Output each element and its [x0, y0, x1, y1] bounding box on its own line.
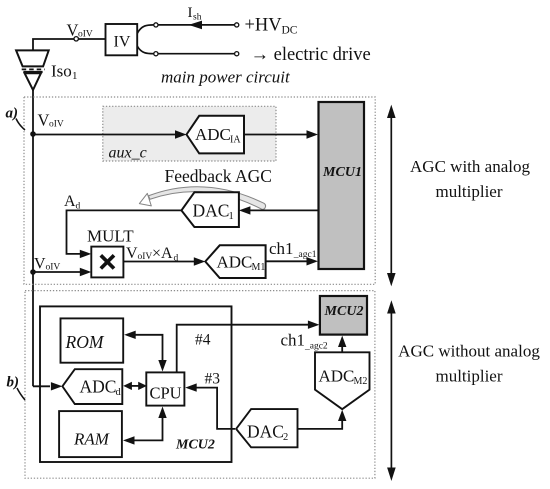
isolation amplifier Iso1 input trapezoid	[16, 50, 49, 66]
svg-text:+HV: +HV	[245, 16, 283, 36]
svg-text:ch1: ch1	[281, 331, 306, 350]
tick under a)	[16, 119, 25, 131]
multiplier MULT box	[91, 247, 123, 278]
terminal circle electric drive	[235, 52, 239, 56]
svg-text:ADC: ADC	[195, 125, 231, 144]
svg-text:multiplier: multiplier	[435, 182, 502, 201]
shaded aux_c box	[103, 106, 276, 161]
node VoIV terminal circle	[74, 37, 78, 41]
svg-text:Iso: Iso	[51, 62, 72, 81]
arrow into CPU top	[158, 360, 166, 372]
wire from Iso1 top to IV box	[33, 39, 106, 51]
svg-text:V: V	[38, 111, 50, 130]
wire Ish	[158, 24, 235, 26]
RAM box	[59, 411, 122, 457]
wire MULT to ADC_M1	[123, 261, 194, 263]
ADC_M1 converter	[205, 245, 265, 278]
svg-text:_agc1: _agc1	[293, 250, 317, 260]
svg-text:RAM: RAM	[73, 430, 110, 449]
CPU box	[146, 372, 184, 405]
svg-text:ADC: ADC	[217, 252, 253, 271]
double arrow ADC_d to CPU	[130, 385, 141, 387]
arrow #4 into MCU2	[308, 321, 320, 329]
wire DAC1 to MULT (Ad)	[67, 210, 182, 254]
ADC_IA converter	[187, 116, 245, 154]
double arrow region a	[390, 115, 392, 276]
isolation amplifier Iso1 output triangle	[25, 73, 41, 90]
wire VoIV main vertical	[32, 90, 34, 386]
feedback curved arrow body	[149, 187, 266, 210]
svg-text:M2: M2	[354, 376, 368, 387]
svg-text:→ electric drive: → electric drive	[251, 45, 371, 65]
svg-text:d: d	[116, 387, 122, 398]
svg-text:CPU: CPU	[150, 383, 182, 402]
wire VoIV into ADC_d	[33, 385, 50, 387]
DAC2 converter	[236, 409, 297, 447]
wire VoIV to ADC_IA	[33, 134, 176, 136]
svg-text:MULT: MULT	[87, 227, 134, 246]
svg-text:Feedback AGC: Feedback AGC	[165, 166, 272, 186]
svg-text:I: I	[188, 5, 193, 21]
isolation barrier solid	[23, 71, 42, 73]
svg-text:ROM: ROM	[65, 332, 105, 352]
isolation barrier dashed	[22, 68, 45, 70]
svg-text:MCU2: MCU2	[175, 438, 215, 453]
ADC_M2 converter	[315, 352, 370, 409]
terminal circle top left	[154, 23, 158, 27]
svg-text:#4: #4	[195, 332, 211, 349]
svg-text:multiplier: multiplier	[435, 367, 502, 386]
wire RAM to CPU	[134, 418, 163, 440]
svg-text:A: A	[64, 193, 76, 210]
tick under b)	[17, 388, 25, 400]
terminal circle bottom left	[154, 52, 158, 56]
svg-text:IV: IV	[114, 34, 131, 51]
arrow Ish pointing left	[189, 21, 202, 30]
svg-text:MCU2: MCU2	[324, 304, 364, 319]
arrow into DAC1	[239, 206, 251, 214]
svg-text:#3: #3	[205, 371, 221, 388]
svg-text:oIV: oIV	[46, 263, 61, 273]
IV converter box	[106, 24, 138, 55]
arrow into CPU bottom	[158, 407, 166, 419]
svg-text:d: d	[76, 202, 81, 212]
wire VoIV into MULT	[33, 271, 80, 273]
svg-text:MCU1: MCU1	[322, 165, 362, 180]
terminal circle +HVdc	[235, 23, 239, 27]
ROM box	[61, 318, 124, 362]
svg-text:×A: ×A	[152, 245, 173, 262]
svg-text:M1: M1	[252, 262, 266, 273]
double arrow region b	[390, 310, 392, 471]
svg-text:V: V	[34, 255, 46, 272]
DAC1 converter	[181, 192, 239, 227]
arrow Ad into MULT	[80, 250, 92, 258]
wire #3 DAC2 to CPU	[196, 388, 235, 429]
svg-text:oIV: oIV	[78, 30, 93, 40]
arrow into RAM	[123, 436, 135, 444]
svg-text:IA: IA	[230, 134, 241, 145]
dotted frame region a	[24, 97, 375, 284]
wire ROM to CPU	[134, 335, 163, 362]
ADC_d converter	[62, 369, 122, 404]
svg-text:DC: DC	[282, 25, 298, 37]
svg-text:DAC: DAC	[193, 201, 230, 221]
wire DAC2 to ADC_M2	[298, 421, 343, 429]
svg-text:main power circuit: main power circuit	[161, 68, 291, 87]
arrow into ADC_M1	[194, 257, 206, 265]
wire ADC_IA to MCU1	[244, 134, 307, 136]
wire electric drive	[158, 53, 235, 55]
MCU1	[319, 102, 365, 269]
multiplier X symbol	[101, 255, 114, 268]
svg-text:1: 1	[229, 211, 234, 222]
svg-text:aux_c: aux_c	[109, 145, 147, 162]
svg-text:ch1: ch1	[269, 239, 294, 258]
wire #4 CPU to MCU2	[177, 325, 308, 373]
MCU2 gray box	[320, 296, 367, 335]
arrow #3 into CPU	[185, 383, 197, 391]
svg-text:sh: sh	[193, 13, 202, 23]
feedback curved arrow head	[139, 193, 151, 206]
MCU2 outline box	[40, 306, 232, 462]
wire curve IV to bottom terminal	[137, 46, 154, 54]
arrow into ROM	[124, 331, 136, 339]
wire ADC_M2 to MCU2	[341, 347, 343, 352]
arrow into MCU2 bottom	[338, 336, 346, 347]
svg-text:2: 2	[283, 432, 288, 443]
arrow into MCU1 top input	[307, 130, 319, 138]
arrow into ADC_M2 bottom	[338, 410, 346, 421]
arrow into ADC_d	[51, 382, 63, 390]
svg-text:oIV: oIV	[49, 120, 64, 130]
wire ADC_M1 to MCU1	[266, 260, 307, 262]
arrow into MCU1 bottom input	[307, 257, 319, 265]
svg-text:V: V	[126, 245, 138, 262]
svg-text:V: V	[67, 21, 79, 40]
svg-text:ADC: ADC	[319, 366, 355, 385]
arrow VoIV into MULT	[80, 268, 92, 276]
junction node at MULT branch	[30, 269, 36, 275]
wire MCU1 to DAC1	[250, 209, 319, 211]
svg-text:AGC without analog: AGC without analog	[398, 342, 540, 361]
svg-text:1: 1	[72, 70, 78, 82]
arrow into ADC_IA	[175, 130, 187, 138]
dotted frame region b	[25, 291, 375, 479]
svg-text:AGC with analog: AGC with analog	[410, 157, 530, 176]
svg-text:DAC: DAC	[247, 422, 284, 442]
svg-text:ADC: ADC	[80, 376, 117, 396]
svg-text:_agc2: _agc2	[304, 342, 328, 352]
junction node at ADC_IA branch	[30, 131, 36, 137]
wire curve IV to top terminal	[137, 25, 154, 34]
